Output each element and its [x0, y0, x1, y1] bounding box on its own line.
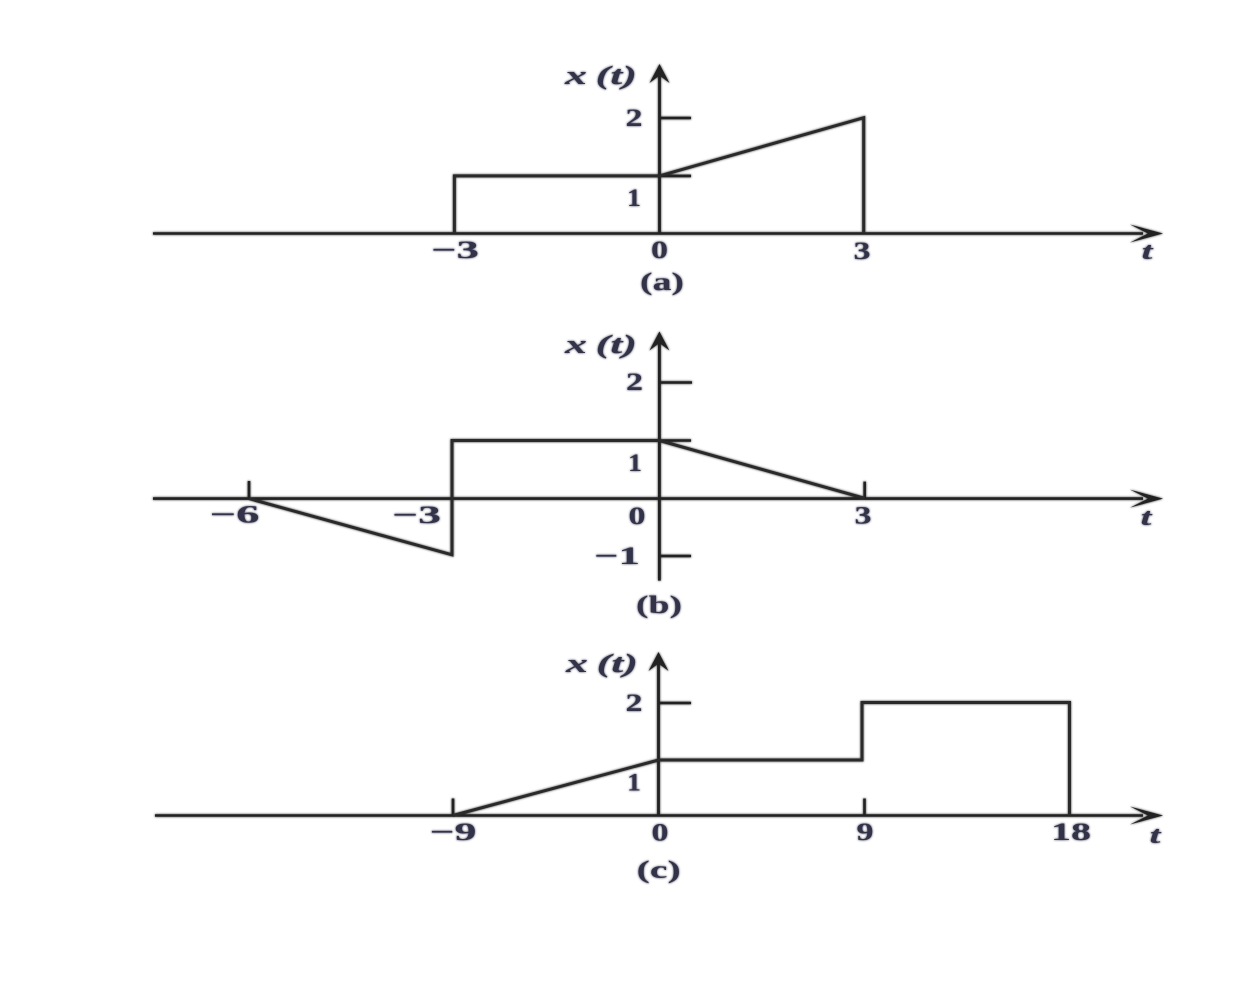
svg-text:3: 3 — [854, 238, 871, 265]
plot (a) y-axis arrowhead — [650, 64, 670, 83]
svg-text:x (t): x (t) — [564, 649, 638, 678]
plot (a) y-axis — [658, 76, 661, 234]
svg-text:3: 3 — [855, 503, 872, 530]
svg-text:x (t): x (t) — [563, 330, 637, 359]
svg-text:(c): (c) — [637, 857, 681, 884]
svg-text:2: 2 — [626, 105, 643, 132]
plot (c) axis tick at t=-9 — [452, 799, 455, 816]
plot (b) y-axis arrowhead — [649, 332, 669, 351]
plot (a) x-axis — [153, 232, 1143, 235]
svg-text:2: 2 — [626, 369, 643, 396]
plot (b) axis tick at t=3 — [863, 482, 866, 499]
svg-text:−3: −3 — [392, 502, 441, 529]
plot (b) axis tick at t=-6 — [248, 481, 251, 499]
svg-text:1: 1 — [628, 450, 642, 477]
svg-text:−6: −6 — [210, 502, 260, 529]
svg-text:2: 2 — [626, 690, 643, 717]
svg-text:(b): (b) — [636, 592, 682, 619]
plot (b) x-axis — [153, 497, 1143, 500]
plot (c) y-axis arrowhead — [649, 652, 669, 671]
plot (c) tick at y=2 — [659, 702, 692, 705]
plot (b) y-axis — [658, 343, 661, 581]
svg-text:9: 9 — [857, 819, 874, 846]
plot (c) x-axis arrowhead — [1130, 807, 1163, 825]
svg-text:t: t — [1142, 239, 1155, 265]
plot (b) x-axis arrowhead — [1130, 490, 1163, 508]
svg-text:t: t — [1141, 505, 1154, 531]
svg-text:1: 1 — [627, 770, 641, 797]
plot (c) y-axis — [657, 664, 660, 816]
svg-text:−3: −3 — [431, 237, 479, 264]
svg-text:(a): (a) — [640, 269, 684, 296]
svg-text:0: 0 — [652, 820, 669, 847]
plot (a) tick at y=1 — [660, 175, 692, 178]
svg-text:−9: −9 — [430, 819, 477, 846]
plot (a) tick at y=2 — [660, 117, 692, 120]
svg-text:0: 0 — [651, 237, 668, 264]
svg-text:0: 0 — [629, 503, 646, 530]
plot (b) tick at y=1 — [659, 439, 691, 442]
svg-text:−1: −1 — [594, 543, 640, 570]
plot (b) tick at y=-1 — [659, 555, 691, 558]
plot (c) axis tick at t=9 — [863, 799, 866, 816]
plot (a) signal polyline — [454, 118, 863, 234]
svg-text:1: 1 — [627, 185, 641, 212]
plot (b) signal polyline — [249, 441, 865, 555]
plot (b) tick at y=2 — [659, 381, 692, 384]
svg-text:t: t — [1150, 823, 1163, 849]
plot (c) x-axis — [155, 814, 1143, 817]
svg-text:x (t): x (t) — [563, 61, 637, 90]
plot (a) x-axis arrowhead — [1130, 225, 1163, 243]
svg-text:18: 18 — [1051, 819, 1091, 846]
plot (c) signal polyline — [453, 703, 1070, 816]
